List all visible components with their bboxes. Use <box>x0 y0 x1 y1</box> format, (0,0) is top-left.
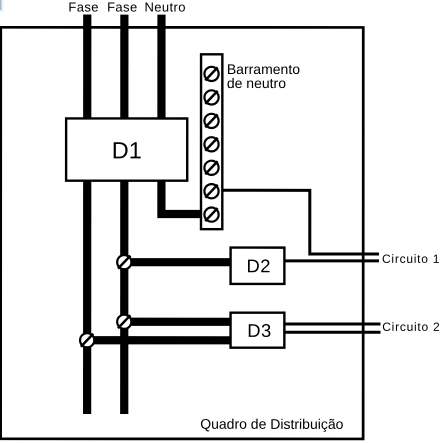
wire D2 output to circuito 1 <box>284 259 379 262</box>
wire fase 2 to D3 (upper pole) <box>124 318 231 326</box>
screen artifact blue sliver <box>0 0 1 10</box>
svg-text:D1: D1 <box>112 137 142 163</box>
breaker D3 <box>231 313 285 348</box>
svg-text:Fase: Fase <box>107 0 138 14</box>
svg-text:Neutro: Neutro <box>144 0 185 14</box>
enclosure: distribution board outline <box>1 27 364 439</box>
busbar terminal screw 3 <box>204 114 218 128</box>
wire D3 output B to circuito 2 <box>284 331 380 334</box>
svg-text:de neutro: de neutro <box>227 75 286 91</box>
wire D3 output A to circuito 2 <box>284 323 380 326</box>
busbar terminal screw 4 <box>204 137 218 151</box>
wire fase 2 to D2 <box>124 258 231 266</box>
svg-text:Circuito 1: Circuito 1 <box>382 252 440 266</box>
wire neutral feed to circuito 1 <box>221 190 379 254</box>
svg-text:Circuito 2: Circuito 2 <box>382 320 440 334</box>
wire neutro (vertical, then to busbar) <box>161 15 211 214</box>
busbar terminal screw 6 <box>204 184 218 198</box>
junction tap on fase 1 feeding D3 <box>80 333 94 347</box>
busbar terminal screw 2 <box>204 90 218 104</box>
label Barramento de neutro <box>227 61 300 91</box>
junction tap on fase 2 feeding D3 <box>117 315 131 329</box>
busbar terminal screw 5 <box>204 161 218 175</box>
svg-text:D2: D2 <box>247 255 272 276</box>
breaker D2 <box>231 248 285 284</box>
wire fase 1 to D3 (lower pole) <box>87 336 231 344</box>
busbar terminal screw 1 <box>204 67 218 81</box>
svg-text:Quadro de Distribuição: Quadro de Distribuição <box>200 416 343 432</box>
breaker D1 <box>66 118 187 180</box>
wire fase 2 (vertical) <box>120 15 128 414</box>
junction tap on fase 2 feeding D2 <box>117 255 131 269</box>
svg-text:D3: D3 <box>247 320 272 341</box>
wire fase 1 (vertical) <box>83 15 91 414</box>
busbar terminal screw 7 (neutro in) <box>204 207 218 221</box>
neutral busbar (Barramento de neutro) <box>201 54 222 229</box>
svg-text:Fase: Fase <box>68 0 99 14</box>
